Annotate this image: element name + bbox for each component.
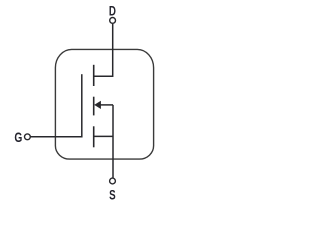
svg-text:S: S (109, 187, 116, 203)
svg-text:G: G (14, 129, 22, 145)
svg-text:D: D (109, 3, 116, 19)
